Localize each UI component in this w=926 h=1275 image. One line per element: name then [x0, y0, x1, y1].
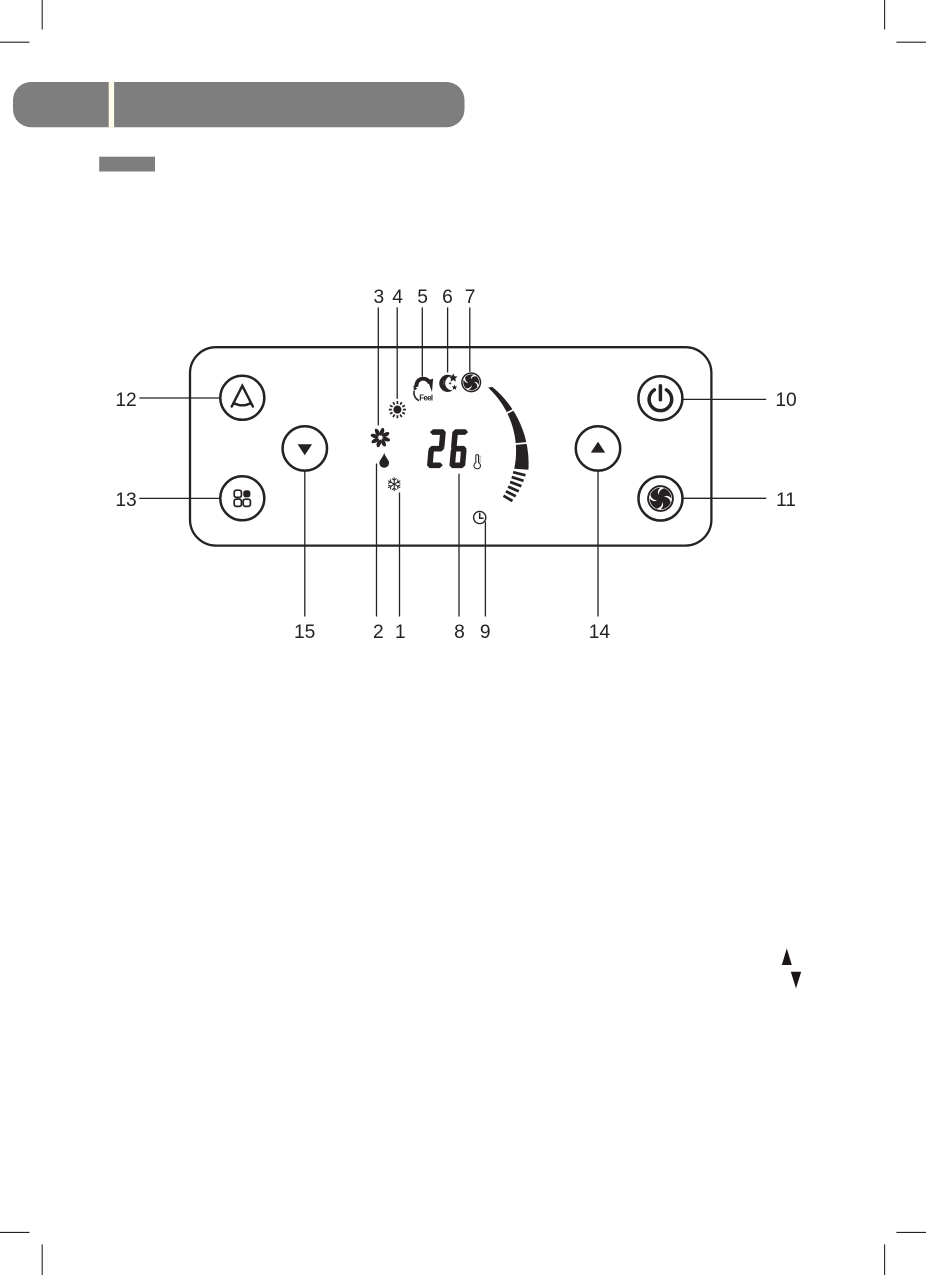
clock icon (9) [474, 511, 486, 523]
callout line 1 [399, 493, 401, 617]
7-segment digit 2 [427, 429, 446, 468]
svg-text:2: 2 [373, 622, 384, 643]
sun icon (4) [389, 401, 406, 418]
callout line 13 [139, 497, 220, 499]
button 10 power symbol [649, 386, 672, 411]
callout line 6 [447, 307, 449, 372]
crop mark top-right [885, 0, 926, 42]
svg-text:8: 8 [454, 622, 465, 643]
button 11 fan icon [646, 484, 675, 513]
arc tick bars [504, 472, 526, 501]
callout line 2 [376, 464, 378, 617]
button 14 circle (up) [576, 426, 620, 470]
gray header bar [13, 82, 465, 127]
button 12 swing icon [232, 386, 253, 407]
up arrow marker [782, 948, 792, 965]
moon icon (6) [439, 373, 457, 392]
crop mark top-left [0, 0, 42, 42]
button 10 circle (power) [638, 376, 682, 420]
crop mark bottom-left [0, 1232, 42, 1275]
svg-text:12: 12 [115, 390, 136, 411]
svg-text:15: 15 [294, 622, 315, 643]
button 13 circle [220, 476, 264, 520]
callout line 7 [469, 307, 471, 371]
fan-speed arc crescent [488, 387, 529, 470]
small gray rectangle [99, 157, 155, 172]
header bar divider [109, 82, 114, 127]
svg-text:9: 9 [480, 622, 491, 643]
down arrow marker [791, 972, 801, 989]
svg-text:11: 11 [776, 490, 796, 511]
button 14 up triangle [591, 442, 605, 453]
arc segment gap 1 [505, 409, 514, 414]
callout line 4 [396, 307, 398, 398]
pinwheel icon (3) [371, 428, 390, 447]
callout line 12 [139, 397, 220, 399]
small fan icon (7) [458, 370, 483, 395]
crop mark bottom-right [885, 1232, 926, 1275]
panel outline [190, 347, 711, 545]
button 15 circle (down) [283, 426, 327, 470]
button 13 mode icon [234, 490, 250, 506]
snowflake icon (1) [387, 477, 402, 491]
svg-text:5: 5 [417, 287, 428, 308]
svg-text:Feel: Feel [419, 394, 433, 403]
button 12 circle [220, 376, 264, 420]
svg-text:6: 6 [442, 287, 453, 308]
7-segment digit 6 [449, 429, 468, 468]
svg-text:13: 13 [115, 490, 136, 511]
svg-text:7: 7 [465, 287, 476, 308]
drop icon (2) [379, 453, 389, 468]
callout line 10 [683, 398, 767, 400]
callout line 9 [484, 522, 486, 617]
callout line 5 [421, 307, 423, 376]
svg-text:1: 1 [395, 622, 406, 643]
Feel icon (5) [414, 379, 434, 403]
callout line 3 [377, 307, 379, 425]
thermometer icon [474, 455, 481, 469]
callout line 14 [597, 471, 599, 617]
callout line 8 [458, 474, 460, 617]
button 11 circle (fan) [639, 477, 683, 521]
button 15 down triangle [298, 444, 312, 455]
svg-text:14: 14 [589, 622, 611, 643]
callout line 11 [683, 497, 767, 499]
callout line 15 [304, 471, 306, 617]
svg-text:3: 3 [373, 287, 384, 308]
svg-text:10: 10 [775, 390, 796, 411]
arc segment gap 2 [514, 443, 528, 444]
svg-text:4: 4 [392, 287, 403, 308]
